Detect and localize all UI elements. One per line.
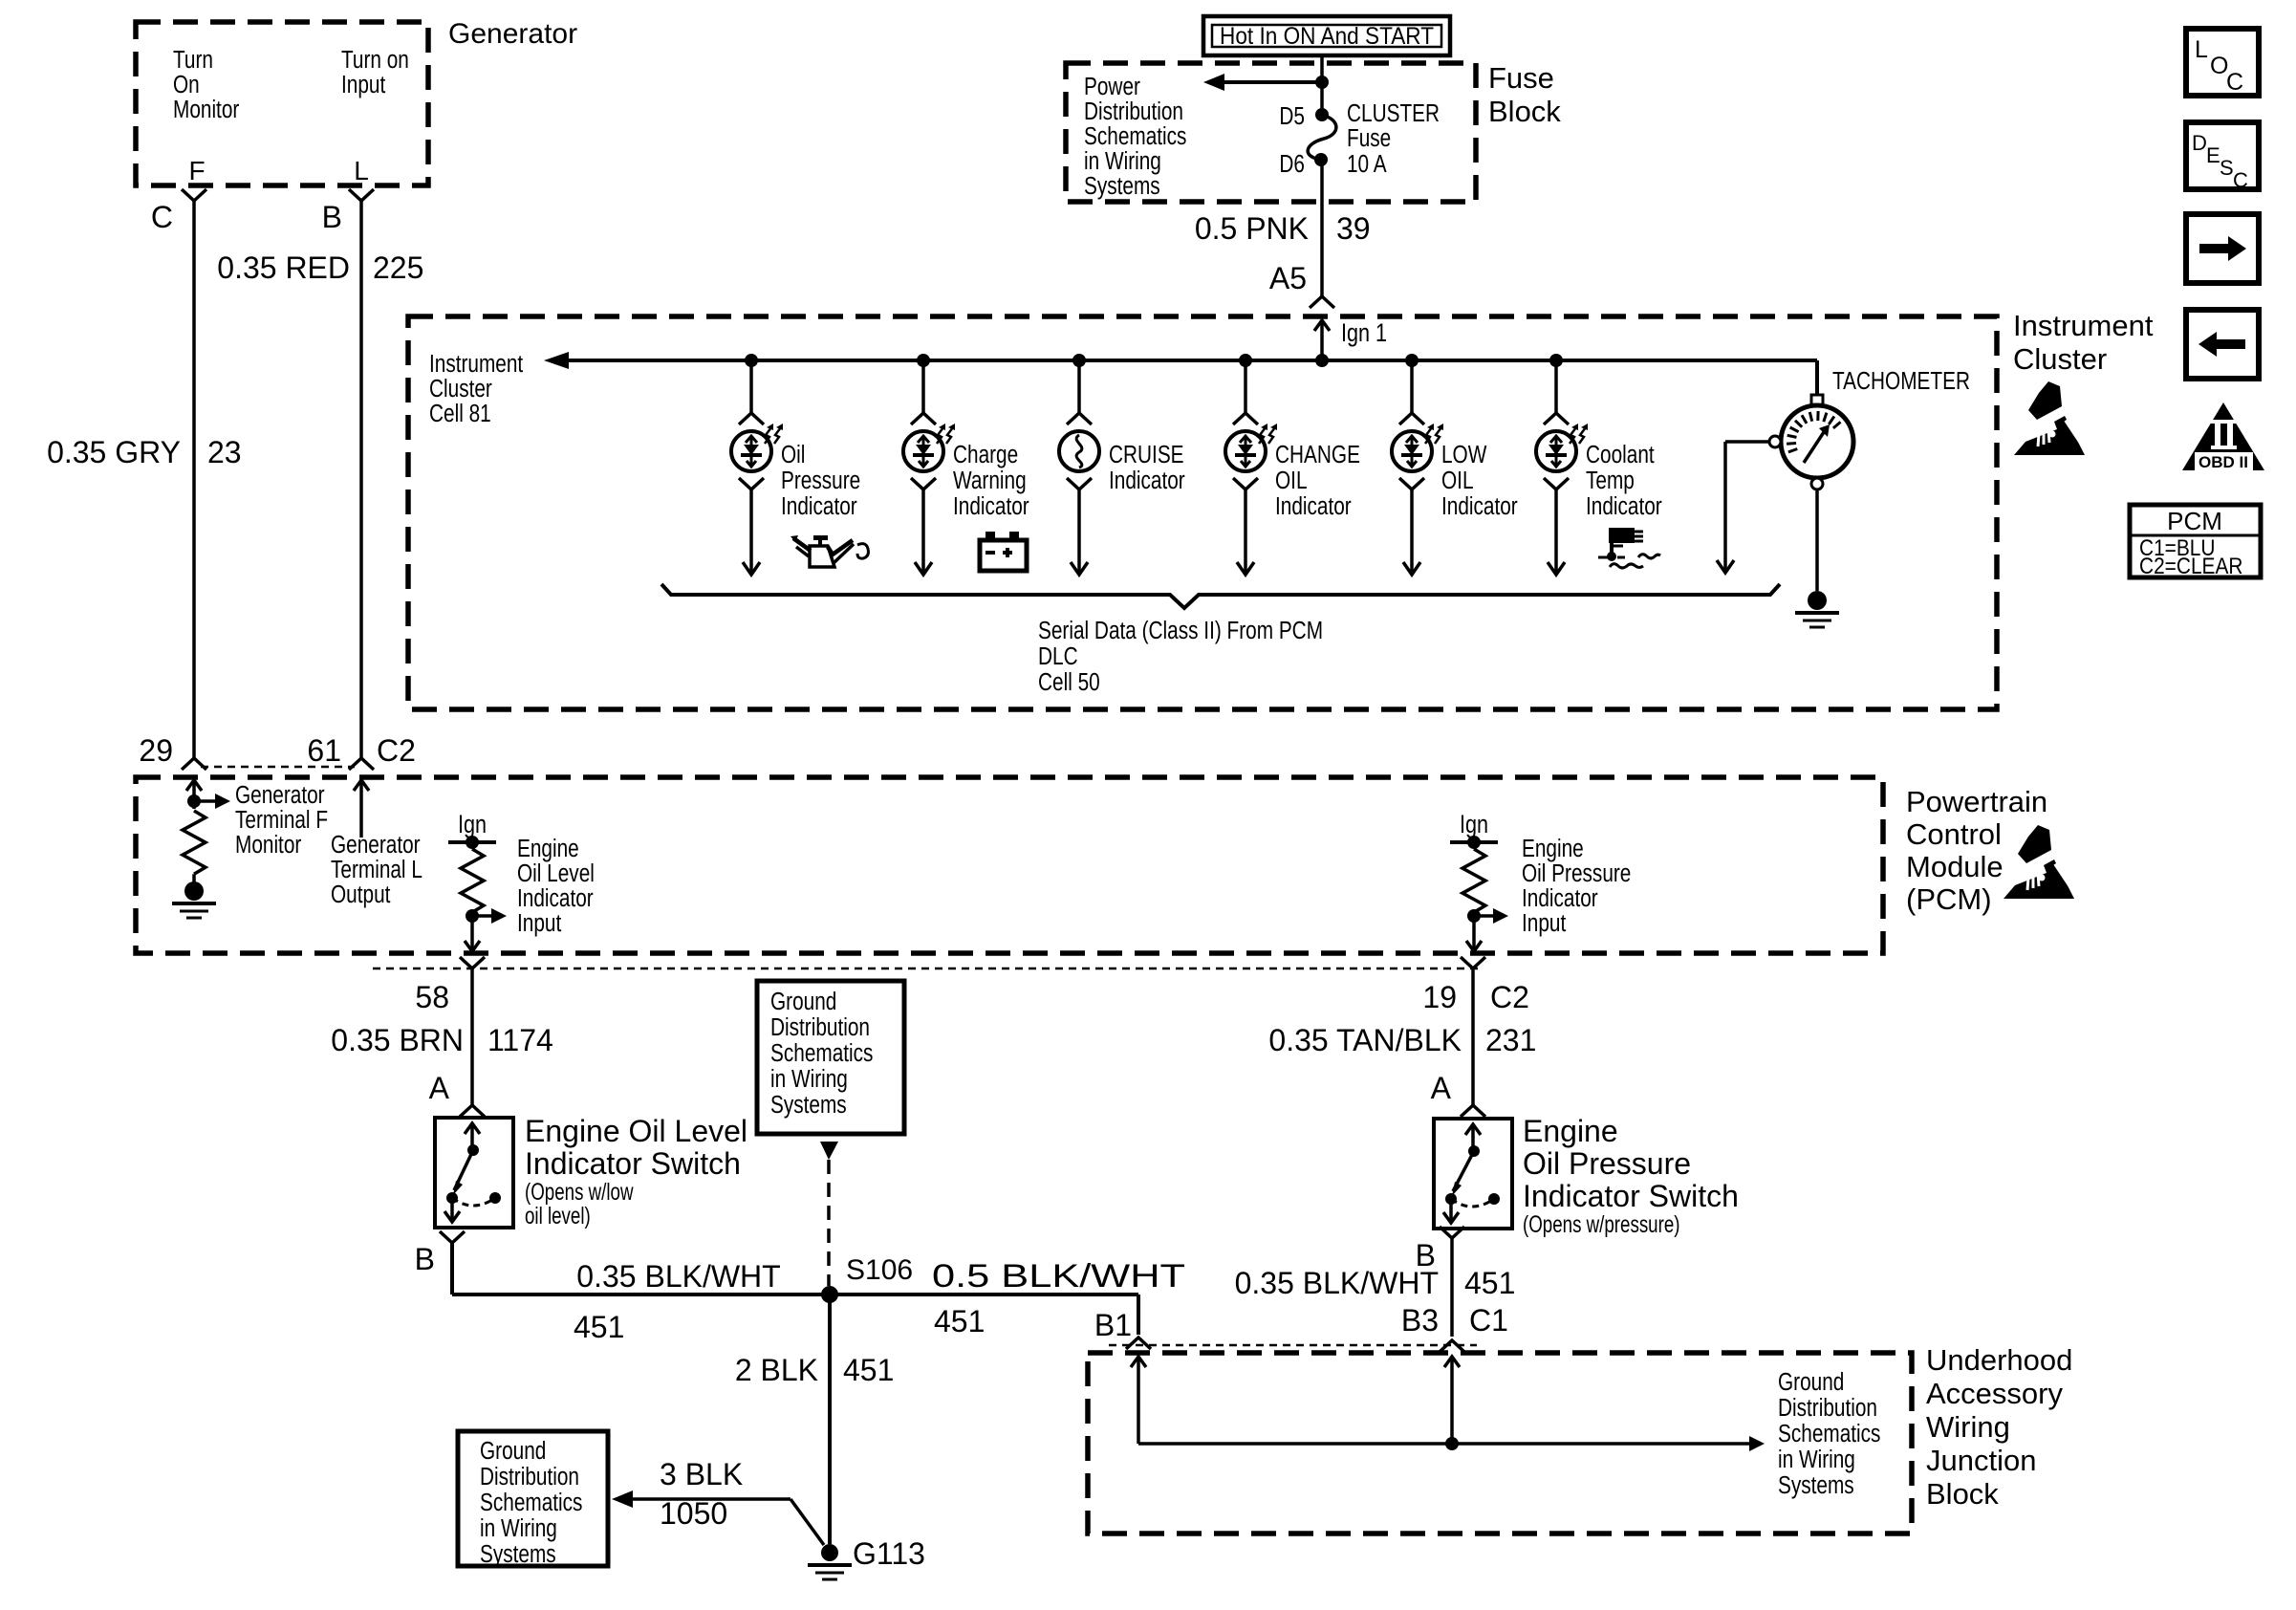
svg-text:B1: B1 xyxy=(1094,1308,1132,1342)
svg-text:D: D xyxy=(2192,131,2207,155)
svg-text:oil level): oil level) xyxy=(525,1202,591,1229)
svg-text:Charge: Charge xyxy=(953,441,1018,468)
svg-text:Warning: Warning xyxy=(953,467,1027,494)
svg-text:Indicator: Indicator xyxy=(517,884,594,912)
svg-text:Systems: Systems xyxy=(480,1540,556,1568)
svg-text:Wiring: Wiring xyxy=(1926,1410,2010,1444)
svg-text:Input: Input xyxy=(517,909,562,937)
svg-text:Indicator Switch: Indicator Switch xyxy=(1523,1179,1739,1213)
svg-text:Oil: Oil xyxy=(781,441,805,468)
svg-text:TACHOMETER: TACHOMETER xyxy=(1832,367,1970,395)
svg-text:S106: S106 xyxy=(846,1254,913,1286)
svg-text:C2: C2 xyxy=(377,733,416,768)
svg-text:A: A xyxy=(429,1071,450,1105)
svg-text:Generator: Generator xyxy=(331,831,421,859)
svg-text:Pressure: Pressure xyxy=(781,467,860,494)
svg-text:0.35 BLK/WHT: 0.35 BLK/WHT xyxy=(1235,1266,1439,1300)
svg-text:Terminal F: Terminal F xyxy=(235,806,328,834)
svg-text:0.35 RED: 0.35 RED xyxy=(217,250,350,285)
svg-text:19: 19 xyxy=(1422,980,1457,1014)
svg-text:Distribution: Distribution xyxy=(1084,98,1183,125)
svg-text:0.5 PNK: 0.5 PNK xyxy=(1195,211,1309,246)
svg-text:CRUISE: CRUISE xyxy=(1109,441,1184,468)
svg-text:F: F xyxy=(188,156,205,185)
svg-text:Hot In ON And START: Hot In ON And START xyxy=(1220,23,1434,50)
svg-text:0.35 BLK/WHT: 0.35 BLK/WHT xyxy=(576,1259,780,1294)
svg-text:0.35 BRN: 0.35 BRN xyxy=(331,1023,464,1057)
svg-text:A5: A5 xyxy=(1269,261,1307,295)
svg-text:OBD II: OBD II xyxy=(2199,453,2248,471)
svg-text:Ground: Ground xyxy=(480,1437,546,1465)
svg-text:G113: G113 xyxy=(853,1536,925,1571)
svg-text:Cluster: Cluster xyxy=(429,375,492,402)
svg-text:Oil Pressure: Oil Pressure xyxy=(1523,1146,1691,1181)
svg-text:Instrument: Instrument xyxy=(2013,309,2154,342)
svg-text:Cell 81: Cell 81 xyxy=(429,400,491,427)
svg-text:Turn: Turn xyxy=(173,46,213,74)
svg-text:Distribution: Distribution xyxy=(770,1013,870,1041)
svg-text:Accessory: Accessory xyxy=(1926,1377,2063,1410)
svg-text:Indicator: Indicator xyxy=(1275,492,1352,520)
svg-text:Output: Output xyxy=(331,881,391,908)
svg-text:Schematics: Schematics xyxy=(770,1039,873,1067)
svg-text:1174: 1174 xyxy=(487,1023,553,1057)
svg-text:Distribution: Distribution xyxy=(480,1463,579,1490)
svg-text:Terminal L: Terminal L xyxy=(331,856,422,883)
svg-text:225: 225 xyxy=(373,250,423,285)
svg-text:CLUSTER: CLUSTER xyxy=(1347,99,1440,127)
svg-text:Systems: Systems xyxy=(1084,172,1160,200)
svg-text:CHANGE: CHANGE xyxy=(1275,441,1360,468)
svg-text:0.35 TAN/BLK: 0.35 TAN/BLK xyxy=(1268,1023,1462,1057)
svg-text:(Opens w/pressure): (Opens w/pressure) xyxy=(1523,1210,1680,1237)
svg-text:Powertrain: Powertrain xyxy=(1906,785,2047,818)
svg-text:Input: Input xyxy=(341,71,386,98)
svg-text:2 BLK: 2 BLK xyxy=(735,1353,818,1387)
svg-text:in Wiring: in Wiring xyxy=(770,1065,848,1093)
svg-text:58: 58 xyxy=(415,980,449,1014)
svg-text:in Wiring: in Wiring xyxy=(1084,147,1161,175)
svg-text:S: S xyxy=(2220,156,2234,180)
svg-text:Engine: Engine xyxy=(1523,1114,1618,1148)
svg-text:Ign 1: Ign 1 xyxy=(1341,319,1387,348)
svg-text:Ign: Ign xyxy=(458,811,487,839)
svg-text:Power: Power xyxy=(1084,73,1140,100)
svg-text:Indicator: Indicator xyxy=(1586,492,1662,520)
svg-text:Generator: Generator xyxy=(448,18,577,50)
svg-text:A: A xyxy=(1431,1071,1452,1105)
svg-text:1050: 1050 xyxy=(660,1496,727,1531)
svg-text:451: 451 xyxy=(1464,1266,1515,1300)
svg-text:Indicator: Indicator xyxy=(781,492,857,520)
svg-text:Serial Data (Class II) From PC: Serial Data (Class II) From PCM xyxy=(1038,617,1323,644)
svg-text:61: 61 xyxy=(307,733,341,768)
svg-text:Engine: Engine xyxy=(1522,835,1584,862)
svg-text:Control: Control xyxy=(1906,817,2002,851)
svg-text:(PCM): (PCM) xyxy=(1906,882,1992,916)
svg-text:On: On xyxy=(173,71,200,98)
svg-text:Distribution: Distribution xyxy=(1778,1394,1877,1422)
svg-text:Instrument: Instrument xyxy=(429,350,524,378)
svg-text:OIL: OIL xyxy=(1275,467,1308,494)
svg-text:Cluster: Cluster xyxy=(2013,342,2107,376)
svg-text:Block: Block xyxy=(1488,95,1561,128)
svg-text:D6: D6 xyxy=(1279,150,1305,178)
svg-text:Generator: Generator xyxy=(235,781,325,809)
svg-text:Indicator Switch: Indicator Switch xyxy=(525,1146,741,1181)
svg-text:Schematics: Schematics xyxy=(1084,122,1186,150)
svg-text:Indicator: Indicator xyxy=(1441,492,1518,520)
svg-text:OIL: OIL xyxy=(1441,467,1474,494)
svg-text:451: 451 xyxy=(843,1353,894,1387)
svg-text:Oil Pressure: Oil Pressure xyxy=(1522,859,1631,887)
svg-text:Indicator: Indicator xyxy=(1522,884,1598,912)
svg-text:Fuse: Fuse xyxy=(1347,124,1391,152)
svg-text:29: 29 xyxy=(139,733,173,768)
svg-text:Input: Input xyxy=(1522,909,1567,937)
svg-text:Schematics: Schematics xyxy=(1778,1420,1880,1447)
svg-text:0.5 BLK/WHT: 0.5 BLK/WHT xyxy=(932,1258,1185,1295)
svg-text:Indicator: Indicator xyxy=(953,492,1029,520)
svg-text:DLC: DLC xyxy=(1038,642,1078,670)
svg-text:Engine Oil Level: Engine Oil Level xyxy=(525,1114,747,1148)
svg-text:C2=CLEAR: C2=CLEAR xyxy=(2139,554,2242,579)
svg-text:L: L xyxy=(2195,36,2208,63)
svg-text:Engine: Engine xyxy=(517,835,579,862)
svg-text:PCM: PCM xyxy=(2167,507,2222,535)
svg-text:C1: C1 xyxy=(1469,1303,1508,1338)
svg-text:Module: Module xyxy=(1906,850,2004,883)
svg-text:Fuse: Fuse xyxy=(1488,61,1554,95)
svg-text:E: E xyxy=(2206,143,2220,167)
svg-text:Junction: Junction xyxy=(1926,1444,2036,1477)
svg-text:Schematics: Schematics xyxy=(480,1489,582,1516)
svg-text:Monitor: Monitor xyxy=(235,831,301,859)
svg-text:C: C xyxy=(151,200,173,234)
svg-text:Systems: Systems xyxy=(1778,1471,1854,1499)
svg-text:D5: D5 xyxy=(1279,102,1305,130)
svg-text:Systems: Systems xyxy=(770,1091,847,1119)
svg-text:B: B xyxy=(415,1242,435,1276)
svg-text:Indicator: Indicator xyxy=(1109,467,1185,494)
svg-text:Oil Level: Oil Level xyxy=(517,859,595,887)
svg-text:451: 451 xyxy=(934,1304,985,1338)
svg-text:Turn on: Turn on xyxy=(341,46,409,74)
svg-text:Block: Block xyxy=(1926,1477,1999,1511)
svg-text:39: 39 xyxy=(1336,211,1371,246)
svg-text:B: B xyxy=(322,200,342,234)
svg-text:10 A: 10 A xyxy=(1347,150,1387,178)
svg-text:Ground: Ground xyxy=(770,988,836,1015)
svg-text:3 BLK: 3 BLK xyxy=(660,1457,743,1491)
svg-text:Temp: Temp xyxy=(1586,467,1635,494)
svg-text:LOW: LOW xyxy=(1441,441,1487,468)
svg-text:C2: C2 xyxy=(1490,980,1529,1014)
svg-text:Ground: Ground xyxy=(1778,1368,1844,1396)
svg-text:in Wiring: in Wiring xyxy=(1778,1446,1855,1473)
svg-text:23: 23 xyxy=(207,435,242,469)
svg-text:C: C xyxy=(2233,168,2248,192)
svg-text:0.35 GRY: 0.35 GRY xyxy=(47,435,181,469)
svg-text:L: L xyxy=(354,156,369,185)
svg-text:Underhood: Underhood xyxy=(1926,1343,2072,1377)
svg-text:Cell 50: Cell 50 xyxy=(1038,668,1100,696)
svg-text:C: C xyxy=(2226,69,2243,96)
svg-text:Coolant: Coolant xyxy=(1586,441,1655,468)
svg-text:in Wiring: in Wiring xyxy=(480,1514,557,1542)
svg-text:Monitor: Monitor xyxy=(173,96,239,123)
svg-text:231: 231 xyxy=(1485,1023,1536,1057)
svg-text:451: 451 xyxy=(574,1310,624,1344)
svg-text:Ign: Ign xyxy=(1460,811,1488,839)
svg-text:B3: B3 xyxy=(1401,1303,1439,1338)
